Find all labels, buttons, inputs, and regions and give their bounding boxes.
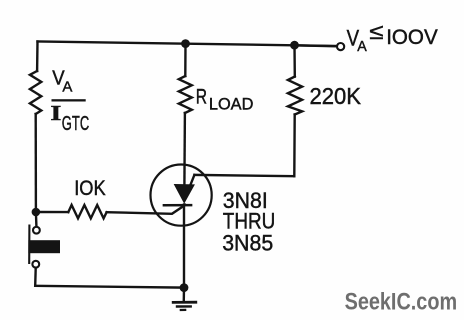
thyristor Q1 body circle bbox=[151, 165, 212, 226]
resistor 10K zigzag bbox=[68, 205, 106, 218]
wire anode gate into triangle bbox=[190, 175, 194, 185]
resistor R_LOAD zigzag bbox=[179, 76, 192, 113]
fraction bar of VA/IGTC label bbox=[52, 99, 86, 101]
node junction cathode/ground bbox=[180, 283, 189, 292]
node junction rail/R_LOAD bbox=[181, 39, 190, 48]
ground bar 3 bbox=[181, 309, 185, 311]
wire top rail bbox=[38, 42, 342, 47]
wire thyristor cathode to ground junction bbox=[183, 205, 185, 288]
ground bar 2 bbox=[177, 305, 191, 308]
resistor 10K lead from junction bbox=[36, 211, 68, 214]
svg-text:LOAD: LOAD bbox=[209, 95, 254, 113]
wire left vertical (junction to switch top contact) bbox=[35, 212, 38, 226]
pushbutton switch S1 plunger (thick bar) bbox=[28, 240, 60, 253]
node junction rail/220K bbox=[290, 41, 299, 50]
svg-text:≤: ≤ bbox=[369, 19, 383, 44]
svg-text:3N85: 3N85 bbox=[222, 230, 273, 255]
wire rail to supply terminal bbox=[295, 45, 337, 46]
wire switch bottom contact to bottom rail corner bbox=[34, 268, 37, 286]
svg-text:IOOV: IOOV bbox=[386, 26, 438, 49]
ground stem bbox=[183, 288, 186, 300]
svg-text:IOK: IOK bbox=[74, 177, 106, 200]
wire middle vertical (rail junction to R_LOAD) bbox=[184, 44, 187, 77]
thyristor Q1 anode triangle bbox=[175, 185, 195, 203]
pushbutton switch S1 top contact bbox=[33, 227, 40, 234]
wire left vertical (top rail to resistor) bbox=[36, 42, 39, 72]
resistor 220K zigzag bbox=[288, 77, 302, 115]
svg-text:R: R bbox=[196, 85, 207, 108]
pushbutton switch S1 bottom contact bbox=[32, 261, 39, 268]
svg-text:A: A bbox=[62, 78, 72, 95]
svg-text:SeekIC.com: SeekIC.com bbox=[345, 289, 458, 316]
wire anode gate horizontal bbox=[194, 175, 294, 176]
wire cathode gate lead into thyristor bbox=[107, 205, 186, 214]
svg-text:GTC: GTC bbox=[62, 113, 89, 135]
thyristor Q1 cathode bar bbox=[164, 204, 191, 207]
wire left vertical (resistor to gate junction) bbox=[35, 114, 38, 212]
svg-text:I: I bbox=[50, 101, 61, 125]
terminal VA open circle bbox=[337, 43, 344, 50]
svg-text:220K: 220K bbox=[310, 83, 362, 109]
node junction gate/switch bbox=[32, 208, 41, 217]
wire 220K to anode-gate corner bbox=[293, 115, 296, 177]
pushbutton switch S1 actuator bar bbox=[28, 226, 30, 264]
wire bottom rail bbox=[35, 286, 184, 288]
ground bar 1 bbox=[173, 301, 196, 304]
wire right vertical (rail junction to 220K) bbox=[293, 45, 296, 76]
svg-text:A: A bbox=[357, 39, 367, 55]
resistor R (VA/IGTC) zigzag bbox=[30, 71, 41, 114]
wire R_LOAD to thyristor anode bbox=[183, 113, 186, 185]
